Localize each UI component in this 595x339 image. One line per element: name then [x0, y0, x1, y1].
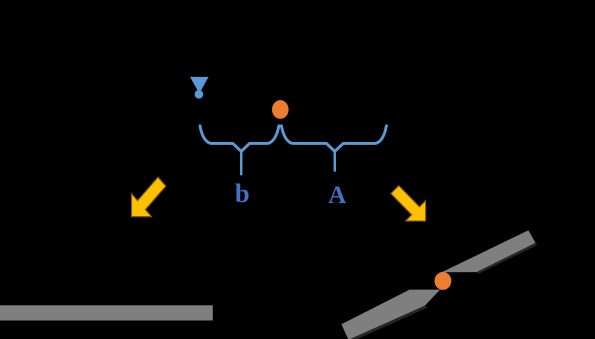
brace A (right curly bracket) [281, 126, 386, 152]
ramp upper plank (right scenario) [442, 230, 536, 272]
ramp lower plank (right scenario) [341, 290, 440, 339]
brace A pointer stem [334, 151, 337, 170]
ramp upper plank soft shadow edge [477, 243, 538, 274]
ramp lower plank soft shadow edge [349, 306, 428, 339]
funnel marker dot [195, 90, 204, 99]
svg-text:A: A [328, 182, 346, 209]
brace b (left curly bracket) [200, 126, 279, 152]
ball on ramp [435, 272, 452, 290]
svg-text:b: b [235, 178, 250, 208]
left arrow (points down-left) [122, 170, 172, 228]
funnel marker (inverted triangle) [190, 77, 209, 94]
ball at top (drop ball) [272, 100, 289, 119]
flat ground bar (left scenario) [0, 305, 213, 320]
right arrow (points down-right) [385, 179, 436, 231]
brace b pointer stem [240, 151, 243, 174]
